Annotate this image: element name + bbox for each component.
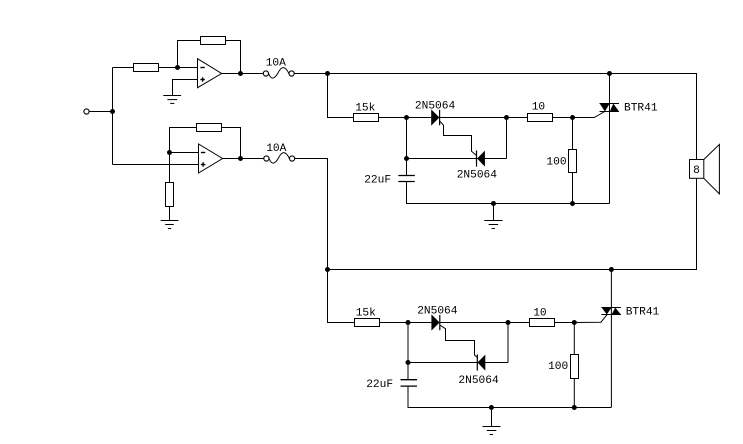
node lower triac top: [609, 267, 614, 272]
speaker 8 ohm: [690, 144, 720, 194]
svg-text:8: 8: [693, 165, 700, 177]
wire: [170, 128, 197, 153]
wire triac gate top: [573, 112, 605, 118]
node U1 output: [238, 71, 243, 76]
wire U2 non-inverting input: [113, 164, 199, 166]
thyristor SCR4 2N5064 bottom: [477, 354, 485, 370]
wire: [506, 118, 508, 159]
ground top channel: [484, 204, 502, 229]
wire: [170, 152, 199, 154]
wire: [573, 323, 575, 355]
wire: [572, 173, 574, 204]
node top rail to 15k: [325, 71, 330, 76]
wire: [440, 117, 528, 119]
resistor RF2 U2 feedback: [197, 124, 222, 132]
wire: [555, 322, 575, 324]
wire: [407, 323, 409, 381]
svg-text:2N5064: 2N5064: [415, 101, 456, 113]
ground U1 non-inverting input: [163, 96, 181, 104]
fuse F1 10A: [263, 68, 294, 79]
svg-text:22uF: 22uF: [366, 379, 393, 391]
resistor RG U2 to ground: [166, 183, 174, 207]
thyristor SCR2 2N5064 top: [477, 150, 485, 166]
svg-text:10A: 10A: [266, 58, 286, 70]
resistor R1 U1 input: [134, 64, 159, 72]
ground bottom channel: [483, 408, 501, 435]
wire SCR1 gate: [440, 121, 476, 155]
node ground junction bottom: [489, 405, 494, 410]
op-amp U2: [199, 144, 223, 173]
wire: [507, 323, 509, 363]
wire: [379, 117, 432, 119]
wire triac gate bottom: [574, 315, 607, 323]
wire: [406, 118, 408, 176]
node 100 bottom junction bottom: [572, 405, 577, 410]
wire top rail: [294, 74, 696, 160]
svg-text:10: 10: [533, 308, 547, 320]
capacitor 22uF bottom: [401, 380, 418, 386]
resistor RF1 U1 feedback: [201, 37, 226, 45]
wire: [222, 128, 241, 159]
wire SCR3 gate: [440, 325, 478, 358]
wire: [553, 117, 573, 119]
wire: [169, 207, 171, 221]
svg-text:100: 100: [546, 156, 566, 168]
svg-text:2N5064: 2N5064: [458, 375, 499, 387]
wire: [226, 41, 241, 74]
node cap junction bottom: [406, 360, 411, 365]
wire: [328, 74, 354, 118]
node triac gate junction bottom: [572, 320, 577, 325]
op-amp U1: [198, 59, 222, 88]
svg-text:2N5064: 2N5064: [417, 306, 458, 318]
svg-text:15k: 15k: [355, 103, 375, 115]
svg-text:2N5064: 2N5064: [457, 170, 498, 182]
wire: [572, 118, 574, 151]
svg-text:100: 100: [548, 361, 568, 373]
triac BTR41 top: [600, 74, 620, 204]
node triac gate junction top: [570, 115, 575, 120]
wire: [407, 158, 507, 160]
node U2 inverting input: [167, 150, 172, 155]
svg-text:BTR41: BTR41: [626, 306, 660, 318]
node cap junction top: [404, 156, 409, 161]
wire: [113, 67, 134, 69]
wire: [222, 73, 264, 75]
node U2 output: [238, 156, 243, 161]
resistor 15k bottom: [355, 319, 380, 327]
ground RG: [161, 221, 179, 229]
wire: [328, 178, 697, 269]
wire: [223, 158, 264, 160]
svg-text:10A: 10A: [266, 143, 286, 155]
input terminal: [84, 109, 89, 114]
node U1 inverting input: [175, 65, 180, 70]
wire: [380, 322, 432, 324]
wire: [573, 378, 575, 407]
triac BTR41 bottom: [601, 270, 621, 408]
svg-text:15k: 15k: [356, 308, 376, 320]
node top rail to triac: [607, 71, 612, 76]
wire: [173, 80, 198, 96]
wire RG: [169, 153, 171, 183]
resistor 10 bottom: [530, 319, 555, 327]
node input junction: [110, 109, 115, 114]
capacitor 22uF top: [398, 176, 415, 182]
node lower feed: [325, 267, 330, 272]
svg-text:BTR41: BTR41: [624, 103, 658, 115]
wire: [159, 67, 198, 69]
node 15k SCR junction bottom: [406, 320, 411, 325]
svg-text:22uF: 22uF: [364, 174, 391, 186]
resistor 100 top: [569, 150, 577, 173]
resistor 100 bottom: [571, 355, 579, 379]
svg-text:10: 10: [532, 102, 546, 114]
wire: [407, 182, 610, 204]
wire: [408, 386, 611, 407]
node SCR 10 junction: [504, 115, 509, 120]
wire: [89, 111, 112, 113]
fuse F2 10A: [264, 153, 295, 164]
resistor 15k top: [354, 114, 379, 122]
wire: [112, 68, 114, 165]
node ground junction top: [491, 201, 496, 206]
wire: [408, 362, 508, 364]
node SCR 10 junction bottom: [506, 320, 511, 325]
node 15k SCR junction: [404, 115, 409, 120]
resistor 10 top: [528, 114, 553, 122]
wire: [440, 322, 529, 324]
node 100 bottom junction top: [570, 201, 575, 206]
thyristor SCR1 2N5064 top: [431, 109, 439, 125]
thyristor SCR3 2N5064 bottom: [431, 314, 439, 330]
wire: [295, 159, 355, 323]
wire: [178, 41, 201, 68]
